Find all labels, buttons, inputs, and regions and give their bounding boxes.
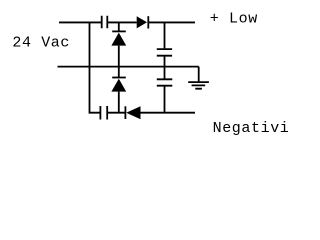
wire middle rail: [58, 66, 199, 68]
wire right vertical branch segments: [164, 22, 166, 112]
capacitor C1 plates (top rail, series): [102, 16, 108, 28]
diode D1 triangle (points right): [137, 16, 147, 28]
capacitor C2 plates (right branch upper): [157, 49, 172, 56]
wire top rail middle segment: [108, 21, 137, 23]
svg-text:+ Low: + Low: [210, 11, 258, 28]
capacitor C4 plates (right branch lower): [157, 79, 173, 85]
diode D3 triangle (points up): [111, 79, 126, 92]
wire top rail right segment: [148, 21, 195, 23]
wire bottom rail right segment: [141, 112, 196, 114]
diode D2 column stubs (x=118.8): [118, 22, 120, 66]
ground symbol: [188, 82, 209, 89]
diode D4 triangle (points left): [126, 106, 140, 119]
capacitor C3 plates (bottom rail, series): [100, 106, 107, 120]
diode D3 cathode bar: [112, 77, 126, 79]
svg-text:Negativi: Negativi: [213, 120, 290, 137]
wire left vertical branch: [90, 22, 100, 112]
wire top rail left segment: [59, 21, 101, 23]
diode D4 cathode bar (bottom rail): [124, 106, 126, 119]
wire bottom rail middle segment: [108, 112, 125, 114]
diode D3 column stubs: [118, 67, 120, 113]
svg-text:24 Vac: 24 Vac: [12, 35, 70, 52]
diode D2 triangle (points up): [111, 33, 126, 46]
wire ground stub: [198, 67, 200, 82]
diode D1 cathode bar (top rail): [147, 16, 149, 28]
diode D2 cathode bar: [112, 30, 126, 32]
